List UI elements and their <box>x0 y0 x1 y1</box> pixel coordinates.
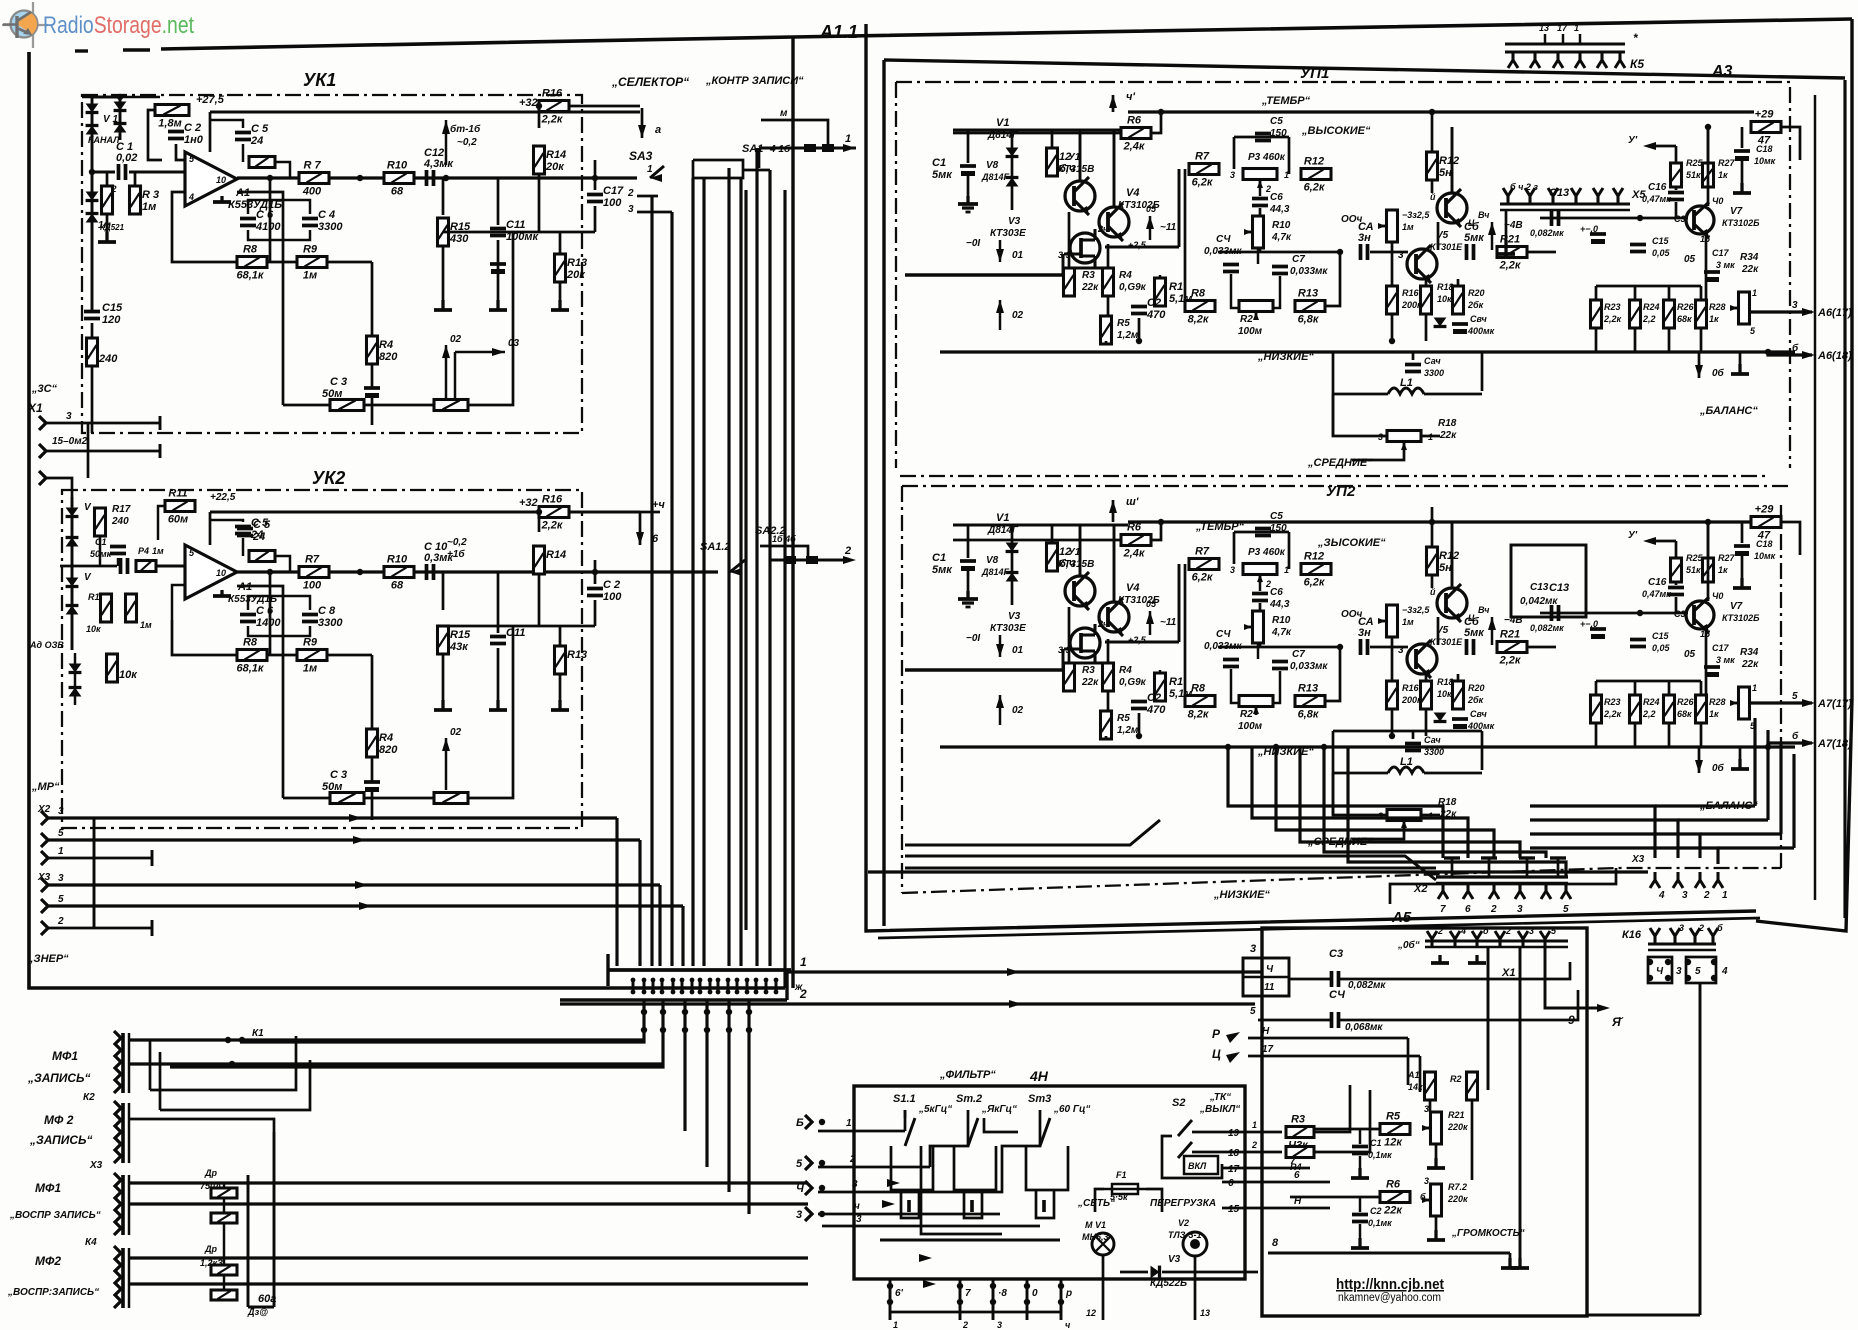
wire R3 UP2 up <box>1068 607 1071 663</box>
connector row pin 10 <box>717 978 720 994</box>
wire C2 UP1 dn <box>1138 318 1141 341</box>
label R19v UP2 <box>1439 809 1457 820</box>
wire R24 up UP2 <box>1634 681 1637 695</box>
svg-text:6: 6 <box>1228 1178 1234 1189</box>
wire K1-K2 link <box>150 1036 296 1090</box>
wire K1 vert 1 <box>149 1040 152 1090</box>
pin label X1A5 3 <box>1529 926 1534 936</box>
diode V5 UK1 <box>86 192 99 201</box>
wire bus drop D <box>681 906 684 966</box>
svg-text:R7: R7 <box>305 554 320 566</box>
wire R6 left UP2 <box>953 539 1121 542</box>
resistor R12 top UP1 <box>1427 152 1460 180</box>
wire top rail UP1 <box>1128 110 1754 113</box>
svg-text:43к: 43к <box>449 641 469 653</box>
wire lamp v2 drop <box>1194 1256 1197 1320</box>
potentiometer R19 srednie UP1 <box>1387 431 1421 451</box>
label VYSOKIE UP1 <box>1301 125 1371 137</box>
filter bottom num 4 <box>1065 1320 1071 1330</box>
label K1 <box>252 1028 264 1039</box>
wire R12 up UP2 <box>1431 507 1434 547</box>
label 02 <box>450 334 462 345</box>
wire C5b down <box>242 538 244 556</box>
filter in label 5 <box>856 1214 862 1225</box>
svg-text:17: 17 <box>1557 23 1568 33</box>
wire feedback box2 <box>267 261 297 264</box>
wire R29 right UP2 <box>1781 522 1800 555</box>
connector K3 pin 5 <box>114 1221 121 1235</box>
wire K3 line 2 <box>129 1202 808 1205</box>
filter entry dot 3 <box>819 1211 825 1217</box>
filter entry label 5 <box>796 1158 803 1170</box>
svg-text:68,1к: 68,1к <box>237 270 265 282</box>
svg-text:3: 3 <box>1378 432 1383 442</box>
svg-text:0,02: 0,02 <box>116 152 137 164</box>
label R3 UP2 <box>1082 665 1095 676</box>
label R20v UP1 <box>1467 300 1484 310</box>
svg-text:5мк: 5мк <box>932 564 953 576</box>
wire C3 right A5 <box>1340 962 1570 979</box>
svg-text:3300: 3300 <box>1424 747 1444 757</box>
wire diode col UK2 <box>71 497 74 650</box>
label 06 UP2 <box>1712 762 1725 774</box>
svg-text:Ч0: Ч0 <box>1712 591 1723 601</box>
label C4v A5 <box>1345 1022 1383 1033</box>
svg-text:Х1: Х1 <box>27 401 43 415</box>
svg-text:1м: 1м <box>303 270 317 282</box>
resistor R1 UK1 <box>155 105 189 130</box>
label R20 UP1 <box>1468 288 1485 298</box>
svg-text:R34: R34 <box>1740 252 1759 263</box>
wire R18 up UP2 <box>1425 674 1428 681</box>
connector K5 bus line 2 <box>1505 51 1625 54</box>
wire c4 UP2 dn <box>1230 669 1232 695</box>
svg-text:SA3: SA3 <box>629 149 653 163</box>
wire R16 up UP1 <box>1391 242 1394 286</box>
wire R26 dn UP2 <box>1668 723 1671 747</box>
filter bottom label 6' <box>895 1288 904 1299</box>
svg-text:3: 3 <box>58 873 64 884</box>
svg-text:7: 7 <box>965 1288 971 1299</box>
label pin3 UP1 <box>1230 170 1235 180</box>
svg-text:V2: V2 <box>1178 1218 1189 1228</box>
wire drop mid 4 <box>747 1000 750 1214</box>
svg-text:1: 1 <box>1574 23 1579 33</box>
svg-text:470: 470 <box>1146 704 1166 716</box>
label R2 1m <box>98 220 112 231</box>
pin label X2 5 <box>58 828 64 839</box>
label C15v UP1 <box>1652 248 1671 258</box>
label N A5 <box>1262 1026 1270 1037</box>
svg-text:3: 3 <box>1230 565 1235 575</box>
wire R4b up <box>371 655 374 729</box>
wire X5 bus2 UP1 <box>1500 209 1630 211</box>
label R27v UP2 <box>1718 565 1728 575</box>
connector X2 A3 bus2 <box>1436 882 1568 884</box>
label R18 UP1 <box>1437 282 1454 292</box>
label AD OSV <box>29 640 64 650</box>
label C20 UP1 <box>1470 314 1487 324</box>
svg-text:22к: 22к <box>1439 430 1457 441</box>
label V2 UP2 <box>1068 547 1081 558</box>
svg-text:5·5к: 5·5к <box>1110 1192 1128 1202</box>
wire drop mid 2 <box>705 1000 708 1167</box>
wire filter in 4 <box>818 1213 1000 1216</box>
svg-text:02: 02 <box>1012 705 1024 716</box>
svg-text:1: 1 <box>1284 170 1289 180</box>
wire V7 emitter UP1 <box>1705 234 1708 310</box>
resistor R17 tone UP2 <box>1301 551 1331 589</box>
wire drop mid 1 <box>683 1000 686 1131</box>
wire filter link b <box>930 1118 968 1167</box>
diode V6 UK2 <box>69 688 82 697</box>
connector X2 A3 pin 2 <box>1489 883 1499 899</box>
label 05 UP2 <box>1146 599 1157 609</box>
label 18 pin UP2 <box>1468 613 1475 623</box>
wire feedback box3 <box>327 261 372 264</box>
resistor R12 top UP2 <box>1427 547 1460 575</box>
wire X3 link r3 <box>1700 832 1781 835</box>
filter bottom pin 6' <box>889 1279 892 1320</box>
wire bus drop C <box>658 885 661 966</box>
svg-text:КТ301Е: КТ301Е <box>1430 637 1463 647</box>
svg-text:0б: 0б <box>1712 367 1725 379</box>
wire C1 to opamp plus <box>129 171 185 174</box>
wire C2 A5 dn <box>1359 1224 1361 1238</box>
filter entry label 3 <box>796 1209 802 1221</box>
arrow out1 UP1 <box>1802 308 1815 316</box>
capacitor C17 UP1 <box>1704 272 1720 282</box>
wire C16 up UP1 <box>1675 146 1678 190</box>
svg-text:13: 13 <box>1539 23 1549 33</box>
svg-text:R4: R4 <box>1290 1162 1302 1172</box>
svg-text:V 1: V 1 <box>103 114 118 125</box>
wire R14b down <box>538 574 541 626</box>
label C7v UP2 <box>1290 661 1328 672</box>
label R28v UP2 <box>1709 709 1719 719</box>
svg-text:24: 24 <box>250 529 263 541</box>
svg-text:400: 400 <box>302 186 322 198</box>
svg-text:4100: 4100 <box>255 221 281 233</box>
label OO1 UP1 <box>1341 214 1363 225</box>
wire SA3 pin3 <box>637 211 672 214</box>
label R25 UP2 <box>1128 635 1147 645</box>
wire C16 dn UP2 <box>1675 597 1678 613</box>
arrow P A5 <box>1226 1032 1240 1043</box>
ground C18 UP2 <box>1733 578 1751 588</box>
wire mid rail UK1 <box>443 231 595 234</box>
label KANAL <box>88 135 120 145</box>
svg-text:02: 02 <box>450 727 462 738</box>
connector K1 bar1 <box>121 1033 125 1093</box>
svg-text:~11: ~11 <box>1160 617 1177 628</box>
arrow line2 <box>1009 1000 1022 1008</box>
label TK <box>1209 1092 1231 1103</box>
svg-text:1м: 1м <box>142 201 156 213</box>
wire tone bottom UP2 <box>1326 647 1340 701</box>
svg-text:R24: R24 <box>1643 697 1660 707</box>
svg-text:51к: 51к <box>1686 170 1701 180</box>
wire R3 UP1 up <box>1068 212 1071 268</box>
svg-text:2: 2 <box>1437 926 1443 936</box>
transistor V4a UP2 <box>1099 598 1129 636</box>
pin label X1A5 2 <box>1437 926 1443 936</box>
svg-text:„СРЕДНИЕ“: „СРЕДНИЕ“ <box>1307 457 1373 469</box>
label ZS <box>31 383 58 395</box>
svg-text:V8: V8 <box>986 555 999 566</box>
wire S2 out 3 <box>1222 1167 1310 1170</box>
svg-text:R25: R25 <box>1686 158 1704 168</box>
label C20v UP2 <box>1467 721 1495 731</box>
label 3 pin UP2 <box>1398 645 1404 656</box>
wire drop mid 3 <box>727 1000 730 1192</box>
diode V4 UK2 <box>66 606 79 615</box>
label C17 UP1 <box>1712 248 1730 258</box>
node V7 base UP1 <box>1637 215 1643 221</box>
ground X5 UP1 <box>1497 240 1515 254</box>
label R1v A5 <box>1408 1082 1423 1092</box>
pin label X2 3 <box>58 806 64 817</box>
svg-text:R21: R21 <box>1500 629 1520 641</box>
svg-text:Н: Н <box>1294 1196 1302 1207</box>
junction drop4b <box>704 1027 710 1033</box>
opamp pin 5 <box>189 154 195 164</box>
wire fb box UP1 <box>1231 276 1280 308</box>
filter bottom label 7 <box>965 1288 971 1299</box>
svg-text:R14: R14 <box>546 149 566 161</box>
pin label K16 2 <box>1698 923 1704 933</box>
svg-text:3: 3 <box>852 1179 858 1190</box>
svg-text:3 мк: 3 мк <box>1716 655 1735 665</box>
wire X3 feed right 2 <box>1766 730 1769 820</box>
wire V6 collector UP2 <box>1451 522 1454 588</box>
wire top rail UP2 <box>1128 520 1754 523</box>
svg-text:6,8к: 6,8к <box>1298 709 1320 721</box>
svg-text:R4: R4 <box>379 732 393 744</box>
svg-text:„ВОСПР:ЗАПИСЬ“: „ВОСПР:ЗАПИСЬ“ <box>7 1287 99 1298</box>
label SA3 pin 2 <box>627 188 634 199</box>
connector row pin 8 <box>699 978 702 994</box>
wire R24 up UP1 <box>1634 286 1637 300</box>
svg-text:03: 03 <box>508 338 520 349</box>
resistor R2 UP2 <box>1047 543 1076 571</box>
svg-text:47: 47 <box>1757 135 1771 147</box>
svg-text:0,068мк: 0,068мк <box>1345 1022 1383 1033</box>
capacitor C5 UP1 <box>1255 134 1271 141</box>
label S1.3 val <box>1053 1104 1091 1115</box>
svg-text:0,033мк: 0,033мк <box>1290 266 1328 277</box>
wire lower fb rail2 UK2 <box>364 797 434 800</box>
wire C18 dn UP1 <box>1741 160 1744 183</box>
resistor R24 UK2 <box>107 654 139 682</box>
filter bottom pin ·8 <box>992 1279 995 1320</box>
junction out line a <box>357 175 363 181</box>
svg-text:R6: R6 <box>1386 1179 1401 1191</box>
wire S2 out 5 <box>1222 1207 1330 1210</box>
inductor L1 UP1 <box>1388 388 1424 394</box>
label V5 UP2 <box>1436 625 1449 636</box>
svg-text:К16: К16 <box>1622 929 1642 941</box>
wire C18 up UP1 <box>1741 127 1744 148</box>
svg-text:Х3: Х3 <box>1631 854 1645 865</box>
label out2 pin UP1 <box>1792 342 1799 354</box>
svg-text:Р4: Р4 <box>138 546 149 556</box>
wire tone top loop UP1 <box>1234 136 1289 139</box>
svg-text:С1: С1 <box>932 157 946 169</box>
capacitor C6 UK2 <box>240 605 281 629</box>
label PEREGRUZKA <box>1150 1198 1216 1209</box>
svg-text:С 4: С 4 <box>318 209 335 221</box>
label R10 UP1 <box>1272 220 1291 231</box>
svg-text:Сач: Сач <box>1424 735 1441 745</box>
connector row pin dot top 14 <box>754 978 759 983</box>
capacitor C8 UP1 <box>1358 221 1374 260</box>
wire signal up UP1 <box>1178 169 1181 247</box>
wire C9 down <box>594 600 597 626</box>
wire bus v2 <box>670 212 673 966</box>
wire X2 T-end <box>151 850 154 866</box>
label X1 connector <box>27 401 43 415</box>
junction UP2 botrail b <box>1389 733 1395 739</box>
wire R5b to out <box>275 556 290 572</box>
label R24v UP2 <box>1642 709 1656 719</box>
wire C11b up <box>497 572 500 633</box>
wire R29 right UP1 <box>1781 127 1800 160</box>
wire right rail UP2 <box>1540 612 1688 615</box>
svg-text:3: 3 <box>1682 890 1688 901</box>
wire right rail UP1 <box>1540 217 1688 220</box>
svg-text:Ад ОЗВ: Ад ОЗВ <box>29 640 64 650</box>
label S2 <box>1172 1097 1185 1109</box>
wire C2 to opamp <box>176 144 192 160</box>
connector K3 bar2 <box>128 1175 130 1235</box>
resistor R12 UK2 <box>434 793 468 804</box>
label X1 A5 <box>1501 967 1515 979</box>
resistor R14 UK2 <box>534 546 567 574</box>
wire tone net left UP2 <box>1184 564 1187 701</box>
svg-text:5н: 5н <box>1439 562 1452 574</box>
wire C2 UP2 dn <box>1138 713 1141 736</box>
wire srednie box top UP2 <box>1333 731 1440 815</box>
wire K2 link2 <box>160 1060 310 1110</box>
wire C18 dn UP2 <box>1741 555 1744 578</box>
svg-text:22к: 22к <box>1741 264 1759 275</box>
label R15 UP2 <box>1402 605 1430 615</box>
ground 8 A5 <box>1501 1258 1519 1268</box>
wire C18 up UP2 <box>1741 522 1744 543</box>
label R24v UP1 <box>1642 314 1656 324</box>
capacitor C11 UK2 <box>490 627 525 644</box>
svg-text:S2: S2 <box>1172 1097 1185 1109</box>
label out1 pin UP2 <box>1792 691 1798 702</box>
wire mid rail UK2 <box>443 625 595 628</box>
connector row pin dot top 13 <box>745 978 750 983</box>
svg-text:10к: 10к <box>86 624 101 634</box>
label 06 UP1 <box>1712 367 1725 379</box>
wire left col down <box>91 323 94 338</box>
connector row pin 15 <box>765 978 768 994</box>
block A3 inner card border top <box>884 60 1845 78</box>
switch SA1.2 lever <box>730 560 745 572</box>
wire SA3 loop box <box>693 160 743 178</box>
block A1.1 outer border top-left segment <box>75 49 88 52</box>
svg-text:2,2: 2,2 <box>1642 314 1656 324</box>
connector X1 A5 pin 2 <box>1495 931 1505 947</box>
svg-text:С17: С17 <box>1712 248 1730 258</box>
capacitor C7 UP1 <box>1272 267 1288 274</box>
wire arrow a stem <box>641 108 644 138</box>
capacitor C4 UK1 <box>302 209 343 233</box>
wire diode cluster vertical 2 <box>119 97 122 140</box>
label V8 UP1 <box>986 160 999 171</box>
svg-text:+2,5: +2,5 <box>1128 635 1147 645</box>
svg-text:м: м <box>780 108 788 119</box>
wire C3 down <box>371 397 374 425</box>
wire R15 gnd <box>442 246 445 300</box>
wire arrow 02 <box>445 345 447 400</box>
wire R2 stub <box>106 172 109 186</box>
connector X5 pin 3 UP1 <box>1548 188 1558 204</box>
svg-text:R13: R13 <box>567 649 587 661</box>
wire C1 UP2 up <box>967 525 970 558</box>
label MF2 <box>44 1113 74 1127</box>
label +32 <box>519 97 538 109</box>
svg-text:ПЕРЕГРУЗКА: ПЕРЕГРУЗКА <box>1150 1198 1216 1209</box>
svg-text:СЧ: СЧ <box>1216 234 1231 245</box>
svg-text:R26: R26 <box>1677 697 1695 707</box>
label C5v UP2 <box>1270 523 1287 534</box>
label OO1 UP2 <box>1341 609 1363 620</box>
svg-text:С16: С16 <box>1648 182 1667 193</box>
wire bus v6 <box>739 178 742 966</box>
label L1 UP2 <box>1400 756 1413 768</box>
wire 06 stem UP1 <box>1698 352 1701 378</box>
switch S2 lever 2 <box>1178 1142 1192 1158</box>
connector K1 pin 1 <box>114 1031 121 1045</box>
wire to V5 UP2 <box>1370 646 1408 649</box>
label +4 UP2 <box>1126 496 1139 508</box>
svg-text:С5: С5 <box>1270 116 1283 127</box>
svg-text:КД522Б: КД522Б <box>1150 1278 1187 1289</box>
label S1.3 <box>1028 1093 1051 1105</box>
svg-text:С 6: С 6 <box>256 605 274 617</box>
transistor V7 UP1 <box>1686 202 1714 238</box>
label out2 UP2 <box>1817 738 1852 750</box>
arrow out1 UP2 <box>1802 699 1815 707</box>
potentiometer R15 UP2 <box>1378 605 1398 637</box>
svg-text:02: 02 <box>1012 310 1024 321</box>
wire C6 down UP2 <box>1259 603 1262 647</box>
svg-text:1: 1 <box>647 164 653 175</box>
label CXv UP1 <box>1204 246 1242 257</box>
connector K3 pin 1 <box>114 1173 121 1187</box>
svg-text:2: 2 <box>849 1154 856 1165</box>
capacitor C12 UK1 <box>423 147 454 186</box>
resistor R4s UK2 <box>136 561 156 572</box>
capacitor C3 UK2 <box>364 782 380 792</box>
wire fb down UK2 <box>269 572 272 655</box>
filter bottom dot2 6' <box>887 1299 893 1305</box>
wire K16 drop <box>1699 983 1702 1315</box>
label S2 pin 19 <box>1228 1128 1240 1139</box>
svg-text:7: 7 <box>1440 904 1446 915</box>
label V1 filter <box>1085 1220 1106 1230</box>
label V1 1.3-KANAL <box>103 114 118 125</box>
connector row pin 3 <box>652 978 655 994</box>
label SA3 pin 3 <box>628 204 634 215</box>
svg-text:+22,5: +22,5 <box>210 492 236 503</box>
label 05 UP1 <box>1146 204 1157 214</box>
